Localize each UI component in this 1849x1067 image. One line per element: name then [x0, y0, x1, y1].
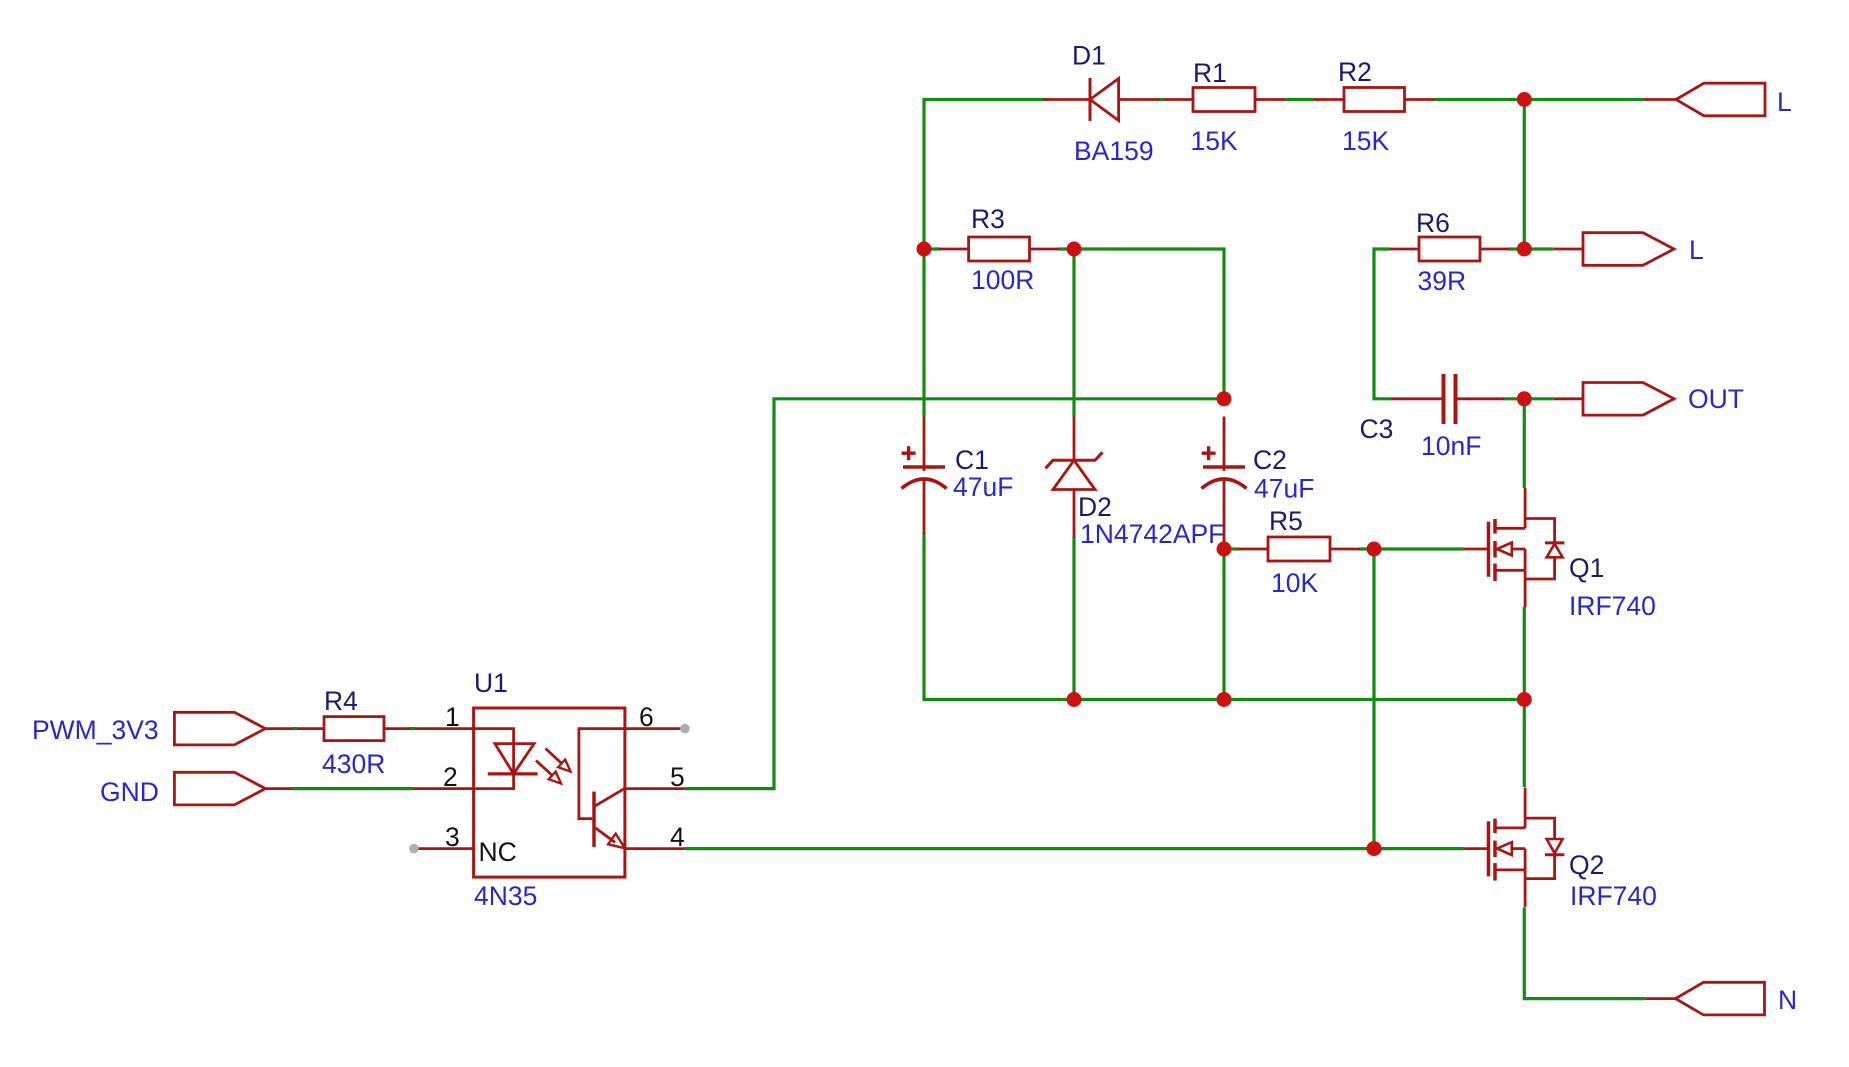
- svg-text:Q1: Q1: [1569, 553, 1604, 583]
- U1 light arrow 1: [546, 749, 562, 764]
- lead R3 right pin: [1030, 248, 1060, 251]
- svg-text:4: 4: [670, 822, 685, 852]
- lead C1 bottom pin: [923, 479, 926, 535]
- lead R3 left pin: [939, 248, 969, 251]
- svg-text:L: L: [1777, 87, 1792, 117]
- zener diode D2 cathode bar with ticks: [1046, 452, 1103, 468]
- wire C2 bottom to bus: [1222, 545, 1225, 700]
- lead D2 bottom pin: [1073, 490, 1076, 539]
- svg-text:PWM_3V3: PWM_3V3: [32, 715, 159, 745]
- wire node to L connector row2: [1524, 247, 1554, 250]
- op-amp U1 optocoupler 4N35 body: [474, 708, 625, 877]
- svg-text:39R: 39R: [1418, 266, 1467, 296]
- resistor R6 body: [1419, 237, 1480, 261]
- wire top rail from D1 to left corner and down to C1: [924, 100, 1046, 417]
- svg-text:C3: C3: [1360, 414, 1394, 444]
- svg-text:IRF740: IRF740: [1569, 591, 1656, 621]
- wire from R6 left down to C3: [1374, 249, 1392, 399]
- transistor Q2 MOSFET IRF740: [1487, 821, 1491, 876]
- zener diode D2 triangle: [1053, 460, 1095, 489]
- svg-text:NC: NC: [479, 837, 517, 867]
- lead D1 anode: [1119, 98, 1160, 101]
- resistor R4 body: [324, 717, 384, 741]
- svg-text:5: 5: [670, 762, 685, 792]
- lead OUT connector: [1554, 397, 1583, 400]
- lead R2 left pin: [1314, 98, 1344, 101]
- lead U1 pin 4 stub: [625, 847, 685, 850]
- lead C2 bottom pin: [1223, 479, 1226, 546]
- svg-text:C1: C1: [955, 445, 989, 475]
- lead R2 right pin: [1405, 98, 1435, 101]
- wire vertical from top-rail node down to R6 node: [1523, 100, 1526, 250]
- U1 phototransistor emitter: [594, 827, 615, 843]
- U1 LED anode path: [474, 729, 514, 774]
- transistor Q1 MOSFET IRF740: [1487, 522, 1491, 577]
- capacitor C1 (polarized): [903, 465, 945, 469]
- svg-text:U1: U1: [474, 668, 508, 698]
- svg-text:6: 6: [639, 702, 654, 732]
- wire Q2 source down and across to N connector: [1524, 907, 1645, 998]
- svg-text:R1: R1: [1193, 58, 1227, 88]
- wire R6 right to node: [1509, 247, 1524, 250]
- wire dash PWM to R4: [292, 727, 298, 730]
- resistor R2 body: [1344, 88, 1405, 112]
- wire C3 right to OUT node: [1503, 397, 1524, 400]
- lead L top connector: [1643, 98, 1676, 101]
- lead C3 right pin: [1456, 397, 1505, 400]
- node R6 right / L2: [1517, 242, 1532, 257]
- U1 phototransistor collector: [594, 788, 625, 806]
- lead R4 right pin: [384, 727, 410, 730]
- lead GND connector: [265, 787, 293, 790]
- svg-text:R4: R4: [324, 686, 358, 716]
- svg-text:BA159: BA159: [1074, 136, 1154, 166]
- wire Q1 source down through bus node to Q2 drain: [1523, 607, 1526, 787]
- U1 LED triangle: [495, 744, 534, 774]
- svg-text:1: 1: [445, 702, 460, 732]
- svg-text:D2: D2: [1078, 492, 1112, 522]
- wire R5 right to Q1 gate: [1359, 547, 1464, 550]
- wire dash R4 to pin1: [410, 727, 416, 730]
- lead U1 pin 2 stub: [414, 787, 474, 790]
- U1 LED cathode bar: [488, 772, 538, 775]
- wire C1 bottom to bus and bus to Q1 source node: [924, 534, 1524, 700]
- lead C3 left pin: [1392, 397, 1444, 400]
- svg-text:3: 3: [445, 822, 460, 852]
- wire dash between D1 and R1: [1160, 98, 1165, 101]
- lead C2 top pin: [1223, 417, 1226, 472]
- node bus / Q1-Q2: [1517, 692, 1532, 707]
- svg-text:R6: R6: [1416, 208, 1450, 238]
- lead R4 left pin: [297, 727, 324, 730]
- node OUT: [1517, 391, 1532, 406]
- lead PWM connector: [265, 727, 293, 730]
- lead U1 pin 5 stub: [625, 787, 685, 790]
- node R3 left: [917, 242, 932, 257]
- lead U1 pin 1 stub: [415, 727, 474, 730]
- svg-text:430R: 430R: [322, 749, 385, 779]
- svg-text:L: L: [1689, 235, 1704, 265]
- svg-text:GND: GND: [100, 777, 159, 807]
- svg-text:100R: 100R: [971, 265, 1034, 295]
- wire dash R5 left: [1224, 547, 1239, 550]
- svg-text:R3: R3: [971, 204, 1005, 234]
- svg-text:IRF740: IRF740: [1570, 881, 1657, 911]
- svg-text:10K: 10K: [1271, 568, 1318, 598]
- svg-text:15K: 15K: [1191, 126, 1238, 156]
- wire OUT node to OUT connector: [1524, 397, 1554, 400]
- lead R1 right pin: [1255, 98, 1285, 101]
- node bus / D2: [1067, 692, 1082, 707]
- svg-text:D1: D1: [1072, 41, 1106, 71]
- U1 pin3 open circle: [409, 844, 419, 854]
- lead R1 left pin: [1164, 98, 1193, 101]
- wire R5 node down to gate row node: [1372, 549, 1375, 849]
- U1 light arrow 2: [536, 761, 552, 776]
- svg-text:47uF: 47uF: [1254, 474, 1314, 504]
- connector OUT flag: [1583, 383, 1674, 416]
- lead U1 pin 3 stub: [414, 847, 474, 850]
- capacitor C2 (polarized): [1203, 465, 1245, 469]
- wire R3 left approach: [924, 247, 940, 250]
- svg-text:OUT: OUT: [1688, 384, 1744, 414]
- lead R6 left pin: [1390, 248, 1419, 251]
- lead L row2 connector: [1554, 248, 1583, 251]
- wire opto pin4 to Q2 gate: [685, 847, 1464, 850]
- node C2 / R5: [1217, 542, 1232, 557]
- wire from opto pin5 up and across to C2 node: [685, 399, 1224, 789]
- connector GND flag: [174, 772, 265, 805]
- lead Q1 gate pin: [1464, 548, 1489, 551]
- lead D1 cathode: [1044, 98, 1090, 101]
- U1 phototransistor base path from pin6: [579, 729, 625, 819]
- svg-text:2: 2: [443, 762, 458, 792]
- lead N connector: [1645, 997, 1675, 1000]
- connector PWM_3V3 flag: [174, 712, 265, 745]
- svg-text:4N35: 4N35: [474, 881, 537, 911]
- lead R5 right pin: [1330, 548, 1360, 551]
- wire GND to pin2: [292, 787, 414, 790]
- U1 LED cathode path: [474, 774, 514, 789]
- U1 phototransistor base bar: [592, 792, 596, 847]
- U1 pin6 open circle: [680, 724, 690, 734]
- node bus / C2: [1217, 692, 1232, 707]
- capacitor C3 right plate: [1454, 374, 1458, 424]
- node R5 right: [1367, 542, 1382, 557]
- connector L top flag: [1676, 83, 1765, 116]
- node C2 top: [1217, 391, 1232, 406]
- svg-text:N: N: [1778, 985, 1797, 1015]
- svg-text:10nF: 10nF: [1421, 431, 1481, 461]
- svg-text:15K: 15K: [1342, 126, 1389, 156]
- diode D1 triangle: [1090, 79, 1119, 121]
- svg-text:1N4742APF: 1N4742APF: [1080, 519, 1224, 549]
- wire OUT node down to Q1 drain: [1523, 399, 1526, 488]
- capacitor C3 left plate: [1442, 374, 1446, 424]
- resistor R5 body: [1268, 537, 1330, 561]
- wire between R1 and R2: [1285, 98, 1314, 101]
- U1 phototransistor emitter arrow: [608, 834, 625, 849]
- lead U1 pin 6 stub: [625, 727, 685, 730]
- lead Q2 gate pin: [1464, 847, 1489, 850]
- wire from R3 right node to C2 top node: [1058, 249, 1224, 399]
- connector L row2 flag: [1583, 233, 1674, 266]
- wire from R3 node down to zener D2: [1072, 249, 1075, 417]
- lead R6 right pin: [1480, 248, 1510, 251]
- node R3 right / D2: [1067, 242, 1082, 257]
- svg-text:C2: C2: [1253, 445, 1287, 475]
- node top rail / L: [1517, 92, 1532, 107]
- svg-text:47uF: 47uF: [953, 472, 1013, 502]
- svg-text:R5: R5: [1269, 506, 1303, 536]
- node gate row: [1367, 841, 1382, 856]
- lead C1 top pin: [923, 417, 926, 472]
- lead R5 left pin: [1238, 548, 1268, 551]
- resistor R3 body: [969, 237, 1030, 261]
- lead D2 top pin: [1073, 417, 1076, 461]
- diode D1 cathode bar: [1089, 78, 1092, 121]
- svg-text:R2: R2: [1338, 57, 1372, 87]
- svg-text:Q2: Q2: [1569, 850, 1604, 880]
- wire from R2 to L connector: [1435, 98, 1644, 101]
- resistor R1 body: [1193, 88, 1255, 112]
- connector N flag: [1676, 982, 1765, 1015]
- wire D2 bottom to bus: [1072, 537, 1075, 700]
